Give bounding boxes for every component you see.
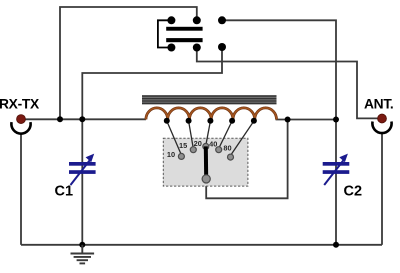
band switch contact 15 — [190, 147, 196, 153]
relay S1 contact top-left — [167, 16, 175, 24]
tap node 2 — [186, 118, 192, 124]
capacitor C1 adjustment arrow — [71, 154, 95, 185]
tap line to contact 40 — [219, 121, 232, 149]
node junction rail at C2 — [333, 242, 339, 248]
terminal ANT pin — [378, 114, 387, 123]
wire RX-TX terminal down — [20, 133, 22, 245]
wire ANT terminal down — [381, 132, 383, 245]
tap line to contact 80 — [231, 121, 254, 156]
svg-text:20: 20 — [194, 139, 202, 148]
wire rotor output loop — [206, 120, 287, 199]
svg-text:C1: C1 — [55, 184, 74, 200]
wire C2 branch vertical — [335, 120, 337, 245]
inductor L1 laminated core — [142, 95, 277, 105]
wire bottom ground rail — [21, 244, 382, 246]
terminal ANT socket arc — [372, 122, 391, 134]
wire feed up from RX-TX node — [60, 7, 197, 119]
svg-text:10: 10 — [167, 150, 175, 159]
svg-text:80: 80 — [223, 144, 231, 153]
tap node 3 — [207, 118, 213, 124]
svg-text:C2: C2 — [344, 184, 363, 200]
band switch contact 40 — [216, 147, 222, 153]
relay S1 bracket wire — [158, 20, 172, 47]
terminal RX-TX pin — [17, 115, 26, 124]
band switch contact 10 — [178, 153, 184, 159]
tap node 5 — [251, 118, 257, 124]
svg-text:RX-TX: RX-TX — [0, 97, 40, 112]
relay S1 armature bar upper — [166, 27, 202, 31]
svg-text:40: 40 — [209, 139, 217, 148]
relay S1 contact bottom-middle — [193, 44, 201, 52]
node junction coil right at C2 — [333, 117, 339, 123]
tap line to contact 20 — [206, 121, 211, 146]
terminal RX-TX socket arc — [11, 122, 30, 134]
band switch contact 80 — [228, 154, 234, 160]
relay S1 contact bottom-left — [167, 44, 175, 52]
wire coil right to C2 node — [276, 119, 336, 121]
capacitor C1 plates — [69, 162, 96, 174]
relay S1 armature bar lower — [166, 38, 202, 42]
band switch SW1 enclosure box — [163, 138, 248, 186]
capacitor C2 plates — [323, 162, 350, 174]
relay S1 contact bottom-right — [218, 43, 226, 51]
wire switch to ANT — [197, 48, 378, 119]
band switch contact 20 — [203, 143, 209, 149]
tap line to contact 15 — [189, 121, 194, 149]
svg-text:ANT.: ANT. — [364, 97, 393, 112]
tap line to contact 10 — [167, 121, 182, 155]
relay S1 contact top-right — [218, 16, 226, 24]
node junction rail at ground — [79, 242, 85, 248]
node junction on RX-TX wire at C1 — [79, 116, 85, 122]
inductor L1 winding — [146, 108, 277, 120]
band switch rotor arm — [204, 146, 208, 179]
tap node 1 — [164, 118, 170, 124]
svg-text:15: 15 — [179, 141, 187, 150]
wire switch top-right to C2 node — [222, 20, 336, 119]
tap node 4 — [229, 118, 235, 124]
wire switch return to C1 node — [82, 47, 222, 119]
band switch rotor hub — [202, 175, 210, 183]
capacitor C2 adjustment arrow — [324, 154, 348, 185]
node junction on RX-TX wire at feed — [57, 116, 63, 122]
relay S1 contact top-middle — [193, 16, 201, 24]
ground symbol — [71, 245, 95, 264]
node junction coil right at rotor loop — [285, 117, 291, 123]
wire C1 branch vertical — [81, 119, 83, 245]
wire RX-TX node horizontal — [21, 118, 146, 120]
